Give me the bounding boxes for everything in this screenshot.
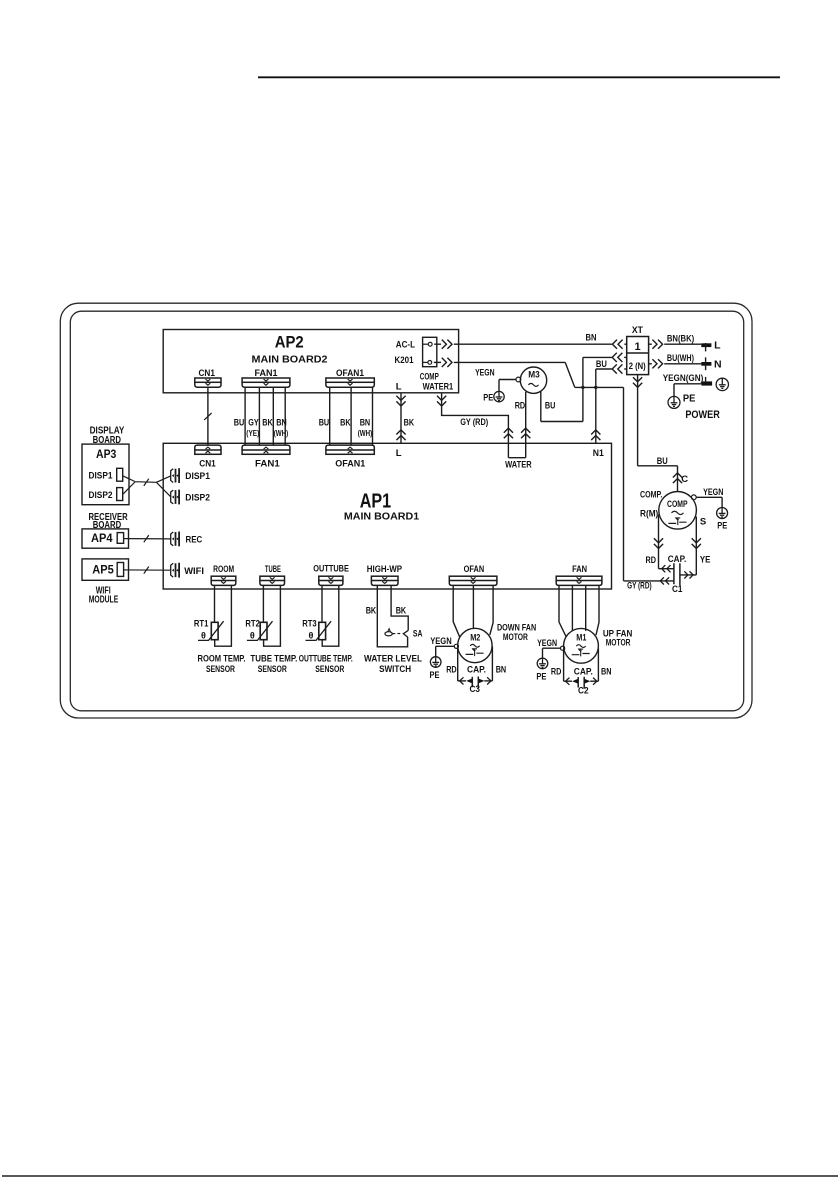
wire FAN1 BK (272, 387, 274, 445)
svg-text:K201: K201 (395, 355, 415, 366)
svg-text:OFAN1: OFAN1 (335, 458, 366, 469)
wire YE to C1 (680, 574, 696, 576)
svg-text:WATER LEVEL: WATER LEVEL (364, 653, 422, 664)
thermistor RT2 (260, 622, 267, 639)
svg-text:PE: PE (683, 393, 696, 405)
footer rule (2, 1175, 838, 1177)
svg-text:COMP: COMP (667, 499, 688, 510)
svg-text:L: L (396, 382, 402, 393)
ground PE M3 (494, 391, 504, 401)
svg-text:RT2: RT2 (245, 619, 260, 630)
wire FAN1 BU (244, 387, 246, 445)
wire OFAN mid (472, 586, 474, 629)
connector OFAN1 on AP1 (326, 450, 374, 454)
wire HIGH-WP right BK (391, 586, 408, 631)
board AP1 box (163, 443, 611, 589)
connector OUTTUBE (319, 576, 343, 580)
svg-text:BU(WH): BU(WH) (667, 353, 694, 364)
svg-text:DISP1: DISP1 (89, 471, 114, 482)
connector CN1 on AP2 (195, 378, 221, 382)
svg-text:MOTOR: MOTOR (606, 638, 631, 649)
wire M2 to PE (436, 645, 455, 647)
svg-text:WATER: WATER (505, 460, 532, 471)
connector CN1 on AP1 (195, 450, 221, 454)
svg-text:BK: BK (404, 418, 415, 429)
wire OFAN left (453, 586, 460, 638)
wire OFAN1 BN (372, 387, 374, 445)
svg-text:θ: θ (308, 631, 313, 641)
earth symbol power (716, 378, 728, 390)
svg-text:PE: PE (536, 671, 546, 682)
ground PE M2 (430, 657, 441, 668)
junction dot (581, 386, 584, 389)
svg-text:BK: BK (366, 606, 377, 617)
svg-text:RD: RD (515, 400, 526, 411)
svg-text:N: N (714, 359, 722, 371)
svg-text:(YE): (YE) (246, 428, 259, 438)
connector ROOM (211, 576, 236, 580)
board AP5 box (82, 559, 129, 580)
pin AP4 (117, 533, 123, 544)
svg-text:OUTTUBE TEMP.: OUTTUBE TEMP. (299, 653, 353, 664)
float symbol (385, 632, 392, 636)
wire FAN w2 (571, 586, 573, 631)
svg-text:POWER: POWER (685, 409, 720, 421)
svg-text:MAIN BOARD2: MAIN BOARD2 (252, 353, 328, 365)
wire FAN w4 (596, 586, 599, 636)
connector icon DISP1 (171, 469, 174, 483)
svg-text:SWITCH: SWITCH (379, 664, 411, 675)
svg-text:BN: BN (276, 418, 287, 429)
connector icon DISP2 (171, 490, 174, 504)
svg-text:OUTTUBE: OUTTUBE (313, 564, 349, 575)
M1 PE terminal (561, 646, 565, 650)
svg-text:SA: SA (413, 628, 423, 639)
svg-text:(WH): (WH) (274, 428, 289, 438)
pin DISP1 (117, 468, 123, 481)
svg-text:BN: BN (586, 332, 597, 343)
wire WATER1 GY(RD) (442, 393, 509, 428)
svg-text:DISP1: DISP1 (185, 471, 210, 482)
svg-text:AP1: AP1 (360, 489, 391, 512)
bundle slash (144, 535, 149, 542)
ground PE M1 (537, 658, 548, 669)
terminal N (701, 362, 711, 366)
junction dot (594, 386, 597, 389)
wire OUTTUBE left (321, 586, 323, 623)
terminal L (701, 343, 711, 347)
svg-text:WATER1: WATER1 (423, 382, 454, 393)
svg-text:ROOM: ROOM (213, 564, 234, 575)
svg-text:CAP.: CAP. (574, 666, 593, 677)
svg-text:BK: BK (262, 418, 273, 429)
svg-text:BU: BU (596, 359, 607, 370)
svg-text:GY (RD): GY (RD) (460, 417, 488, 428)
svg-text:M2: M2 (470, 632, 480, 643)
wire M3 to PE (499, 379, 516, 381)
svg-text:M3: M3 (528, 370, 540, 381)
svg-text:C: C (681, 474, 688, 485)
bundle slash (144, 479, 149, 486)
switch SA blade (403, 633, 408, 637)
svg-text:1: 1 (635, 341, 641, 353)
svg-text:BN: BN (496, 665, 507, 676)
svg-text:REC: REC (186, 535, 203, 546)
wire XT2 lower left BU (612, 364, 622, 373)
M3 PE terminal (516, 377, 521, 382)
svg-text:C2: C2 (578, 686, 589, 697)
svg-text:BU: BU (234, 418, 245, 429)
float dashed link (393, 633, 403, 635)
relay K201 box (423, 337, 437, 366)
relay pin AC-L (428, 342, 432, 346)
svg-text:θ: θ (250, 631, 255, 641)
wire RD M3 to WATER (525, 392, 527, 458)
connector WATER notch (507, 428, 509, 458)
svg-text:GY: GY (248, 418, 259, 429)
svg-text:YEGN: YEGN (537, 638, 557, 649)
svg-text:PE: PE (717, 521, 727, 532)
switch SA contact (403, 630, 408, 633)
relay pin lower (428, 361, 432, 365)
wire XT1 to L terminal (649, 343, 652, 345)
svg-text:BN: BN (601, 666, 612, 677)
svg-text:DISP2: DISP2 (185, 492, 210, 503)
capacitor C1 (673, 563, 675, 584)
inner frame border (70, 311, 743, 711)
svg-text:AP5: AP5 (92, 565, 114, 577)
wire AP4 to REC (124, 538, 171, 540)
svg-text:TUBE TEMP.: TUBE TEMP. (250, 653, 297, 664)
wire bundle AP3 to DISP icons (123, 476, 171, 497)
svg-text:M1: M1 (576, 633, 587, 644)
svg-text:RT3: RT3 (302, 619, 317, 630)
header rule (258, 76, 780, 78)
svg-text:BN: BN (360, 418, 371, 429)
wire M1 to PE (543, 647, 561, 649)
board AP2 box (163, 330, 458, 393)
svg-text:YEGN: YEGN (430, 636, 452, 647)
wire ROOM left (214, 586, 216, 623)
wire XT2 to N terminal (649, 363, 652, 365)
svg-text:CN1: CN1 (198, 368, 215, 379)
ground PE power (668, 396, 680, 408)
svg-text:HIGH-WP: HIGH-WP (367, 564, 403, 575)
compressor COMP (659, 492, 697, 530)
capacitor C2 left lead (563, 649, 565, 682)
wire S lead (695, 517, 697, 575)
connector icon WIFI (171, 563, 174, 577)
wire YEGN(GN) earth (674, 383, 701, 385)
capacitor C3 right lead (491, 647, 493, 681)
bundle slash CN1 (204, 413, 211, 420)
svg-text:MODULE: MODULE (89, 594, 119, 605)
svg-text:CAP.: CAP. (668, 554, 687, 565)
svg-text:R(M): R(M) (640, 509, 658, 520)
connector FAN1 on AP1 (242, 450, 290, 454)
svg-text:BK: BK (396, 606, 407, 617)
svg-text:(WH): (WH) (358, 428, 373, 438)
svg-text:PE: PE (483, 393, 493, 404)
connector HIGH-WP (371, 576, 398, 580)
motor M3 (520, 367, 546, 393)
wire R lead (658, 515, 660, 569)
compressor PE terminal (691, 495, 696, 500)
wire OFAN1 BU (329, 387, 331, 445)
wire TUBE left (262, 586, 264, 623)
svg-text:MOTOR: MOTOR (503, 632, 528, 643)
capacitor C3 left lead (457, 648, 459, 681)
wire AP5 to WIFI (124, 569, 171, 571)
svg-text:XT: XT (632, 325, 643, 336)
pin AP5 (117, 563, 123, 577)
svg-text:ROOM TEMP.: ROOM TEMP. (198, 653, 246, 664)
svg-text:DISP2: DISP2 (89, 490, 113, 501)
outer frame border (60, 303, 752, 718)
connector FAN (556, 576, 602, 580)
wire comp to PE (696, 496, 722, 498)
wire OFAN1 BK (350, 387, 352, 445)
thermistor RT3 (319, 622, 326, 639)
pin DISP2 (117, 488, 123, 501)
svg-text:FAN1: FAN1 (255, 458, 280, 469)
wire BU M3 to XT (540, 391, 542, 421)
svg-text:WIFI: WIFI (184, 566, 204, 577)
svg-text:CAP.: CAP. (467, 665, 486, 676)
svg-text:L: L (714, 340, 721, 352)
wire GY(RD) to C1 (624, 580, 674, 582)
svg-text:C1: C1 (672, 584, 683, 595)
wire ROOM loop (215, 586, 232, 647)
connector OFAN (449, 576, 497, 580)
svg-text:BN(BK): BN(BK) (667, 333, 694, 344)
svg-text:SENSOR: SENSOR (206, 664, 235, 675)
board AP3 box (82, 444, 129, 505)
svg-text:RD: RD (551, 666, 562, 677)
terminal PE (701, 381, 712, 385)
motor M2 (458, 628, 492, 662)
svg-text:CN1: CN1 (199, 458, 216, 469)
wire N1 (595, 387, 597, 443)
svg-text:BU: BU (545, 400, 556, 411)
svg-text:RD: RD (446, 665, 457, 676)
wire BN K201 to XT (434, 343, 441, 345)
svg-text:PE: PE (430, 670, 440, 681)
svg-text:TUBE: TUBE (265, 564, 281, 575)
svg-text:AP2: AP2 (275, 334, 304, 352)
connector OFAN1 on AP2 (326, 378, 374, 382)
svg-text:AP4: AP4 (91, 533, 113, 545)
wire L/BK AP2 to AP1 (400, 393, 402, 444)
motor M1 (564, 628, 599, 663)
capacitor C3 (458, 680, 466, 682)
wire TUBE loop (264, 586, 281, 647)
wire FAN1 GY(YE) (258, 387, 260, 445)
wire HIGH-WP left BK (377, 586, 407, 647)
svg-text:L: L (396, 448, 402, 459)
svg-text:YEGN(GN): YEGN(GN) (663, 373, 704, 384)
svg-text:FAN: FAN (572, 564, 587, 575)
svg-text:RT1: RT1 (194, 619, 209, 630)
svg-text:BU: BU (319, 418, 330, 429)
svg-text:SENSOR: SENSOR (315, 664, 344, 675)
svg-text:OFAN: OFAN (464, 564, 485, 575)
svg-text:θ: θ (201, 631, 206, 641)
wire FAN w3 (585, 586, 587, 631)
svg-text:AC-L: AC-L (396, 340, 415, 351)
wire FAN1 BN(WH) (284, 387, 286, 445)
wire XT to compressor BU (637, 375, 639, 466)
svg-text:GY (RD): GY (RD) (627, 580, 652, 591)
svg-text:BU: BU (657, 456, 668, 467)
connector FAN1 on AP2 (242, 378, 290, 382)
capacitor C2 (564, 680, 572, 682)
wire CN1 bundle (207, 387, 209, 445)
wire OFAN right (490, 586, 493, 635)
svg-text:N1: N1 (593, 448, 605, 459)
terminal block XT (627, 337, 649, 375)
svg-text:COMP.: COMP. (640, 490, 662, 501)
wire FAN w1 (559, 586, 566, 637)
thermistor RT1 (211, 622, 218, 639)
board AP4 box (82, 529, 129, 548)
svg-text:YE: YE (700, 554, 711, 565)
M2 PE terminal (454, 644, 458, 648)
wire K201 lower to N junction (434, 361, 441, 363)
svg-text:OFAN1: OFAN1 (336, 368, 365, 379)
svg-text:RD: RD (646, 555, 657, 566)
wire XT2 upper left (612, 353, 622, 362)
svg-text:S: S (700, 517, 706, 528)
capacitor C2 right lead (597, 649, 599, 682)
svg-text:YEGN: YEGN (475, 368, 495, 379)
svg-text:MAIN BOARD1: MAIN BOARD1 (344, 510, 419, 522)
svg-text:YEGN: YEGN (703, 487, 723, 498)
svg-text:BK: BK (340, 418, 351, 429)
svg-text:FAN1: FAN1 (255, 368, 279, 379)
svg-text:2 (N): 2 (N) (629, 361, 646, 371)
connector TUBE (260, 576, 285, 580)
wire OUTTUBE loop (322, 586, 339, 647)
svg-text:C3: C3 (469, 684, 480, 695)
wire GY(RD) to C1 (623, 387, 625, 581)
connector icon REC (171, 532, 174, 546)
svg-text:AP3: AP3 (96, 449, 116, 461)
ground PE compressor (717, 508, 728, 519)
svg-text:SENSOR: SENSOR (258, 664, 287, 675)
wire RD to C1 (659, 568, 674, 570)
bundle slash (144, 567, 149, 574)
